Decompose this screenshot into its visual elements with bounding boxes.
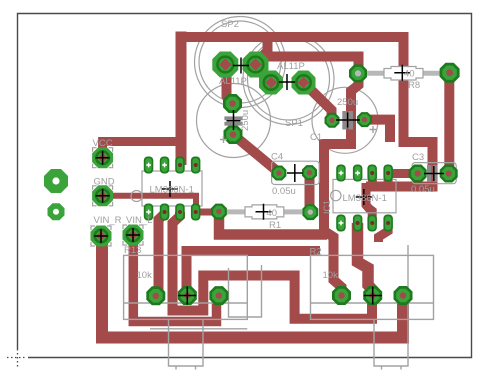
svg-text:GND: GND xyxy=(94,177,115,188)
svg-text:R8: R8 xyxy=(408,80,420,91)
svg-text:0.05u: 0.05u xyxy=(272,186,296,197)
svg-text:LM386N-1: LM386N-1 xyxy=(150,185,194,196)
svg-text:10k: 10k xyxy=(323,270,339,281)
svg-text:C4: C4 xyxy=(271,152,283,163)
svg-text:C1: C1 xyxy=(310,132,322,143)
svg-text:IC1: IC1 xyxy=(322,200,332,214)
svg-text:SP2: SP2 xyxy=(221,19,239,30)
svg-text:AL11P: AL11P xyxy=(219,76,247,87)
svg-text:C3: C3 xyxy=(412,152,424,163)
svg-text:40: 40 xyxy=(404,69,415,80)
svg-text:250u: 250u xyxy=(240,110,251,131)
svg-text:R2: R2 xyxy=(310,247,322,258)
svg-text:VIN_L: VIN_L xyxy=(126,215,152,226)
svg-text:LM386N-1: LM386N-1 xyxy=(343,193,387,204)
svg-text:VIN_R: VIN_R xyxy=(94,215,122,226)
svg-text:250u: 250u xyxy=(337,97,358,108)
svg-text:40: 40 xyxy=(267,208,278,219)
svg-text:R1: R1 xyxy=(269,220,281,231)
svg-text:0.05u: 0.05u xyxy=(411,184,435,195)
svg-text:SP1: SP1 xyxy=(285,118,303,129)
svg-text:10k: 10k xyxy=(137,270,153,281)
svg-text:R13: R13 xyxy=(124,245,141,256)
svg-text:AL11P: AL11P xyxy=(277,61,305,72)
svg-text:VCC: VCC xyxy=(93,138,113,149)
